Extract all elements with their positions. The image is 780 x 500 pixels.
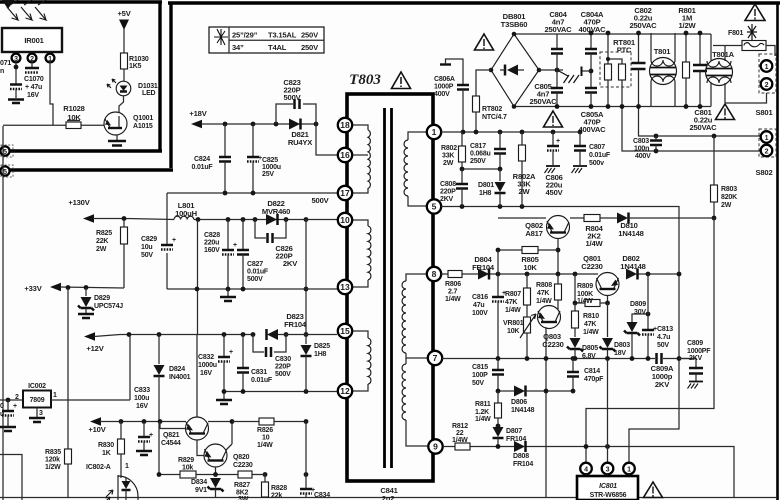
svg-text:3W: 3W [238,496,249,500]
inductor L801 100uH [174,201,197,220]
variable resistor VR801 10K [503,314,536,358]
supply arrow +5V [117,9,131,53]
capacitor C1071 (partial label) [0,60,22,98]
svg-text:500V: 500V [247,276,263,283]
wire +130V rail to pin 10 [306,219,337,221]
capacitor C808 220P 2KV [440,169,468,207]
svg-text:1: 1 [765,64,769,71]
capacitor C827 0.01uF 500V [237,220,269,290]
wire C802 column to S802 line [639,107,761,137]
svg-text:100K: 100K [577,291,593,298]
wire: IR shield box top border [0,0,162,3]
svg-text:30V: 30V [634,309,646,316]
svg-text:T803: T803 [349,72,381,88]
svg-text:2W: 2W [519,187,531,196]
wire +130V rail inside box [194,219,306,221]
svg-text:22k: 22k [271,493,282,500]
svg-text:18V: 18V [614,350,626,357]
resistor R826 10 1/4W [232,418,308,449]
svg-text:100P: 100P [472,372,488,379]
svg-text:220u: 220u [204,240,219,247]
svg-text:R808: R808 [536,282,552,289]
svg-text:1: 1 [765,135,769,142]
svg-text:D805: D805 [582,345,598,352]
svg-text:071: 071 [0,60,11,67]
svg-text:16V: 16V [27,92,39,99]
pin 7 [428,351,442,365]
svg-text:5: 5 [3,169,7,176]
svg-text:2W: 2W [443,160,454,167]
fuse table [209,27,324,53]
wire: left thin border of cold section [2,126,4,500]
transistor Q801 C2230 [581,254,619,303]
capacitor C1070 47u 16V [24,62,44,99]
svg-text:C807: C807 [589,144,605,151]
svg-text:IC002: IC002 [28,383,46,390]
pin 9 [428,439,442,453]
svg-text:8: 8 [432,269,437,279]
svg-text:2KV: 2KV [283,259,298,268]
svg-text:C1070: C1070 [24,76,44,83]
zener D829 UPC574J [78,288,123,313]
svg-text:10K: 10K [507,328,519,335]
capacitor C831 0.01uF [237,335,273,392]
svg-text:MVR460: MVR460 [262,207,290,216]
resistor R805 10K [498,247,558,273]
svg-text:4: 4 [584,467,588,474]
svg-text:A817: A817 [525,229,542,238]
capacitor C805A 470P 400VAC with chassis stub [579,67,607,135]
winding 15-12 [352,331,371,391]
ground under Q1001 [108,141,126,146]
svg-text:1: 1 [48,56,52,63]
svg-text:250V: 250V [470,158,486,165]
fuse F801 [713,24,775,56]
svg-text:+5V: +5V [117,9,131,18]
svg-text:160V: 160V [204,247,220,254]
capacitor C806A 1000P 400V [434,59,469,132]
svg-text:1: 1 [53,392,57,399]
svg-text:R829: R829 [178,457,194,464]
pin 16 [338,148,352,162]
transistor Q821 C4544 [160,335,232,448]
svg-text:RT802: RT802 [482,106,502,113]
svg-text:+: + [13,403,17,410]
svg-text:D801: D801 [478,182,494,189]
resistor R802A 33K 2W [513,132,536,207]
capacitor C801 0.22u 250VAC [690,33,718,132]
svg-text:C2230: C2230 [581,262,602,271]
bridge rectifier DB801 T3SB60 [491,12,539,107]
svg-text:T3SB60: T3SB60 [501,20,528,29]
svg-text:50V: 50V [657,342,669,349]
svg-text:S801: S801 [756,108,774,117]
svg-text:A1015: A1015 [133,123,153,130]
resistor R801 1M 1/2W [678,6,696,107]
svg-text:250V: 250V [301,31,319,40]
wire main B+ rail pin8 [441,273,679,275]
node on +18V rail [223,122,228,127]
svg-text:D824: D824 [169,366,185,373]
svg-text:C803: C803 [633,138,649,145]
wire +33V branch down [67,288,69,497]
primary winding 18-16-17 [352,125,370,193]
wire Q802 emitter down [557,239,559,275]
svg-text:NTC/4.7: NTC/4.7 [482,114,507,121]
capacitor C813 4.7u 50V (electrolytic) [642,274,673,359]
resistor R804 2K2 1/4W [584,215,617,249]
svg-text:500V: 500V [275,371,291,378]
pin 12 [338,384,352,398]
svg-text:4.7u: 4.7u [657,334,670,341]
svg-text:D803: D803 [614,342,630,349]
svg-text:R803: R803 [721,186,737,193]
resistor R1030 1K5 [121,53,149,70]
svg-text:F801: F801 [728,30,743,37]
wire Q802 base line [498,217,584,219]
svg-text:120k: 120k [45,457,60,464]
svg-text:C4544: C4544 [161,440,181,447]
svg-text:1000u: 1000u [198,362,217,369]
svg-text:1/4W: 1/4W [475,416,491,423]
svg-text:100V: 100V [472,310,488,317]
svg-text:UPC574J: UPC574J [94,303,123,310]
resistor R825 22K 2W [96,221,128,288]
resistor R827 8K2 3W [234,471,265,500]
svg-text:D825: D825 [314,343,330,350]
warning triangle T803 [392,72,411,89]
wire pin1 rail [441,131,580,133]
svg-text:1H8: 1H8 [314,351,327,358]
svg-text:C816: C816 [472,294,488,301]
svg-text:C829: C829 [141,236,157,243]
svg-text:C815: C815 [472,364,488,371]
diode D807 FR104 [493,424,527,447]
wire D821 output to pin16 [316,124,337,155]
svg-text:2: 2 [30,56,34,63]
svg-text:100uH: 100uH [175,209,197,218]
svg-text:16: 16 [340,150,350,160]
wire pin7 rail [442,358,696,360]
svg-text:R810: R810 [583,313,599,320]
pin 15 [338,324,352,338]
svg-text:R827: R827 [234,482,250,489]
svg-text:1: 1 [432,127,437,137]
svg-text:FR104: FR104 [472,263,495,272]
wire 130V branch down [305,220,307,335]
svg-text:220P: 220P [275,364,291,371]
svg-text:Q1001: Q1001 [133,115,153,122]
capacitor C833 100u 16V (electrolytic) [134,387,153,455]
warning triangle below T801A [716,104,735,120]
svg-text:16V: 16V [200,370,212,377]
wire LED to Q1001 [119,96,124,112]
chassis ground at C805 [557,70,579,83]
svg-text:D808: D808 [513,453,529,460]
svg-text:C833: C833 [134,387,150,394]
svg-text:C813: C813 [657,326,673,333]
capacitor C817 0.068u 250V [470,132,506,169]
svg-text:25V: 25V [262,171,274,178]
svg-text:820K: 820K [721,194,737,201]
svg-text:C817: C817 [470,143,486,150]
wire: hot-area left thick border [169,3,172,168]
svg-text:47u: 47u [473,302,484,309]
svg-text:10k: 10k [182,465,193,472]
zener D834 9V1 [191,475,224,498]
svg-text:C2230: C2230 [233,462,253,469]
svg-text:STR-W6856: STR-W6856 [590,492,627,499]
svg-text:R812: R812 [452,423,468,430]
resistor R803 820K 2W [711,136,738,218]
diode D822 MVR460 [262,199,290,225]
capacitor C814 470pF [567,359,604,392]
output arrow +10V [88,417,186,434]
pin 3 of IR001 [12,52,21,63]
svg-text:3: 3 [14,56,18,63]
wire pin5 rail to feedback corner [441,207,679,463]
svg-text:+18V: +18V [189,109,207,118]
wire base line from left edge [3,124,66,126]
svg-text:13: 13 [340,282,350,292]
wire: bottom rail [0,497,777,499]
capacitor C803 100n 400V [633,134,662,160]
resistor R807 47K 1/4W [505,274,531,317]
svg-text:R825: R825 [96,230,112,237]
diode D806 1N4148 [496,386,576,415]
IR beam arrows [7,0,46,20]
thermistor RT801 PTC (dashed box, 2 elements) [600,33,636,107]
wire: IR shield box bottom thick bar to pin 5a [10,149,162,152]
output arrow +130V [68,198,174,223]
svg-text:1N4148: 1N4148 [620,262,645,271]
svg-text:n: n [0,68,4,75]
svg-text:2KV: 2KV [689,355,703,362]
resistor R802 33K 2W [441,132,466,169]
svg-text:IR001: IR001 [24,36,44,45]
thermistor RT802 NTC/4.7 [473,70,507,132]
svg-text:9V1: 9V1 [195,487,207,494]
svg-text:2KV: 2KV [440,196,454,203]
output arrow +18V [189,109,316,128]
svg-text:PTC: PTC [617,46,632,55]
svg-text:1H8: 1H8 [479,190,492,197]
svg-text:250VAC: 250VAC [630,21,658,30]
svg-text:+: + [233,242,237,249]
capacitor C824 0.01uF [192,124,231,193]
svg-text:FR104: FR104 [506,436,526,443]
wire pin1 down [50,62,53,125]
LED D1031 [107,79,158,97]
capacitor C807 0.01uF 500v [572,132,611,173]
svg-text:C825: C825 [262,157,278,164]
resistor R810 47K 1/4W [572,303,600,337]
warning triangle below C805A [544,111,563,127]
svg-text:10u: 10u [141,244,152,251]
diode D824 IN4001 [154,335,191,422]
wire left edge of 130V box with C829 [166,193,168,244]
svg-text:22K: 22K [96,238,108,245]
svg-text:1/4W: 1/4W [505,307,521,314]
svg-text:1/4W: 1/4W [577,298,593,305]
svg-text:7: 7 [433,353,438,363]
svg-text:1000PF: 1000PF [687,348,711,355]
common-mode choke T801A [706,34,735,107]
svg-text:2: 2 [765,149,769,156]
capacitor C806 220u 450V (electrolytic) [545,132,564,197]
svg-text:C824: C824 [194,156,210,163]
diode D801 1H8 [478,169,506,207]
capacitor C823 220P 500V snubber loop [276,78,316,124]
zener D805 6.8V [567,338,598,360]
secondary winding 1-5 [404,132,428,206]
svg-text:3: 3 [39,410,43,417]
capacitor C826 220P 2KV loop [255,220,298,269]
svg-text:C827: C827 [247,261,263,268]
capacitor C802 0.22u 250VAC [630,6,658,107]
svg-text:R826: R826 [257,427,273,434]
wire R1028 to Q1001 base [81,124,104,126]
wire R802/C817 tie [462,168,500,170]
capacitor C809A 1000p 2KV (series in rail) [651,352,674,389]
svg-text:+12V: +12V [86,344,104,353]
svg-text:47K: 47K [584,321,596,328]
svg-text:1N4148: 1N4148 [618,229,643,238]
svg-text:R811: R811 [475,401,491,408]
svg-text:+33V: +33V [24,284,42,293]
wire emitter rail [159,422,238,475]
IC801 STR-W6856 [577,359,638,500]
wire: right page border [776,4,779,500]
wire 500V top rail of 130V box [167,192,337,194]
capacitor C828 220u 160V (electrolytic) [204,220,237,290]
svg-text:1/4W: 1/4W [536,298,552,305]
svg-text:400V: 400V [434,91,450,98]
capacitor C805 4n7 250VAC [530,70,563,107]
svg-text:R1028: R1028 [63,104,84,113]
svg-text:R806: R806 [445,281,461,288]
ground under C828 [227,289,229,296]
svg-text:50V: 50V [472,380,484,387]
svg-text:T4AL: T4AL [268,43,287,52]
svg-text:FR104: FR104 [284,320,307,329]
svg-text:17: 17 [340,188,350,198]
svg-text:+10V: +10V [88,425,106,434]
svg-text:D809: D809 [630,301,646,308]
svg-text:7809: 7809 [30,397,45,404]
resistor R830 1K [98,422,125,479]
svg-text:9: 9 [433,442,438,452]
svg-text:18: 18 [340,120,350,130]
warning triangle left of bridge [475,34,494,50]
svg-text:D807: D807 [506,428,522,435]
svg-text:5: 5 [432,202,437,212]
pin 10 [338,213,352,227]
node R825 top [122,216,127,221]
svg-text:400V: 400V [635,153,651,160]
pin 2 of IR001 [28,52,37,63]
svg-text:47K: 47K [505,299,517,306]
transformer core bars [385,108,392,468]
transistor Q802 A817 [525,216,569,239]
zener D825 1H8 [301,335,331,392]
svg-text:450V: 450V [546,188,564,197]
transformer T803 outline [347,94,433,481]
wire: IR shield box right border [158,2,161,152]
svg-text:22: 22 [456,430,464,437]
svg-text:100n: 100n [634,146,649,153]
ground under D829 [78,314,94,318]
capacitor C830 220P 500V loop [253,335,291,379]
svg-text:C806A: C806A [434,76,455,83]
svg-text:R807: R807 [505,291,521,298]
svg-text:R809: R809 [577,283,593,290]
warning triangle top right [745,4,765,21]
svg-text:1K5: 1K5 [129,63,142,70]
wire: hot-area bottom thick bar to pin 5b [10,168,173,171]
wire bottom rail of 130V box to pin13 [167,288,337,290]
svg-text:D1031: D1031 [138,83,158,90]
transistor Q803 C2230 [538,306,564,498]
svg-text:47K: 47K [537,290,549,297]
svg-text:R830: R830 [98,442,114,449]
wire: top AC bus (thick) [168,1,780,4]
pin 5 [427,199,441,213]
svg-text:1: 1 [627,467,631,474]
diode D802 1N4148 [620,254,645,280]
svg-text:1/2W: 1/2W [45,464,61,471]
svg-text:500v: 500v [589,160,604,167]
connector S802 [756,129,776,177]
capacitor C804 4n7 250VAC [545,10,573,70]
svg-text:Q820: Q820 [233,454,250,461]
svg-text:2n2: 2n2 [382,494,395,500]
svg-text:R1030: R1030 [129,56,149,63]
svg-text:1K: 1K [102,450,111,457]
svg-text:15: 15 [340,326,350,336]
svg-text:1000u: 1000u [262,164,281,171]
svg-text:34”: 34” [232,43,244,52]
svg-text:2W: 2W [96,246,107,253]
svg-text:IC801: IC801 [599,483,617,490]
pin 1 of IR001 [46,52,55,63]
svg-text:1000P: 1000P [434,84,454,91]
svg-text:C832: C832 [198,354,214,361]
resistor R806 2.7 1/4W [445,271,462,304]
svg-text:IC802-A: IC802-A [86,464,111,471]
svg-text:D834: D834 [191,479,207,486]
svg-text:D829: D829 [94,295,110,302]
svg-text:T801: T801 [654,47,671,56]
svg-text:+: + [149,432,153,439]
svg-text:+130V: +130V [68,198,90,207]
svg-text:1: 1 [125,463,129,470]
svg-text:R835: R835 [45,449,61,456]
svg-text:250VAC: 250VAC [545,25,573,34]
wire pin12 rail [224,391,337,393]
transistor Q1001 A1015 [104,112,153,135]
svg-text:1/4W: 1/4W [586,239,604,248]
wire R803 column down to feedback [586,218,714,463]
zener D803 18V [600,303,631,359]
wire AC rail upper (bridge top to T801A) [514,33,711,35]
svg-text:C834: C834 [314,492,330,499]
svg-text:16V: 16V [136,403,148,410]
svg-text:50V: 50V [141,252,153,259]
node junction pin3 [14,65,19,70]
svg-text:u: u [0,411,4,418]
capacitor C816 47u 100V (electrolytic) [472,250,506,358]
